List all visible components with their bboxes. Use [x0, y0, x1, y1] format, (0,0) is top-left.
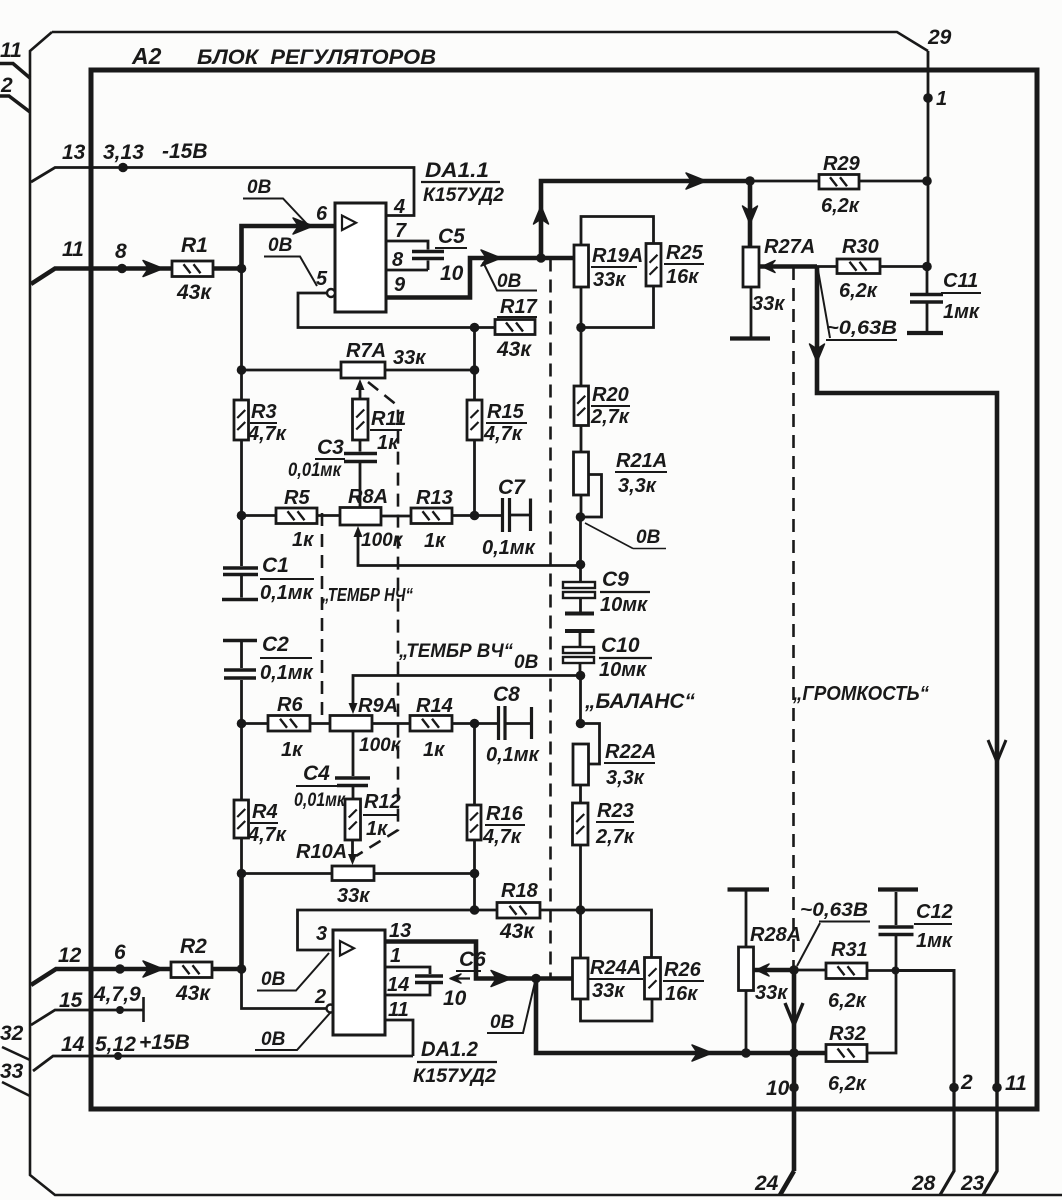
svg-text:C12: C12: [916, 901, 953, 923]
svg-text:„ТЕМБР ВЧ“: „ТЕМБР ВЧ“: [398, 640, 513, 662]
wire R30 right to wire 29: [880, 265, 927, 268]
svg-text:16к: 16к: [665, 983, 698, 1005]
wire node A down / left column: [240, 269, 243, 401]
svg-text:9: 9: [394, 274, 406, 296]
pin 14 stub DA1.2: [385, 984, 430, 995]
resistor R12: [345, 799, 361, 840]
svg-text:0В: 0В: [268, 235, 293, 256]
svg-text:6: 6: [114, 941, 126, 964]
svg-text:R22A: R22A: [605, 741, 656, 763]
svg-text:0В: 0В: [636, 527, 661, 548]
capacitor C3: [359, 440, 362, 452]
wire 0V node to C9: [579, 517, 582, 565]
svg-text:1к: 1к: [292, 529, 314, 551]
svg-text:16к: 16к: [666, 266, 699, 288]
junction 0V node: [576, 512, 586, 522]
svg-text:4,7к: 4,7к: [482, 826, 522, 848]
wire R4 to R10A row: [240, 838, 243, 874]
potentiometer R27A (volume, section A): [743, 247, 759, 287]
svg-text:A2: A2: [131, 43, 162, 69]
svg-text:К157УД2: К157УД2: [413, 1065, 496, 1087]
wire output node to R19A wiper: [541, 256, 574, 261]
svg-text:C4: C4: [303, 762, 330, 785]
potentiometer R22A: [573, 744, 589, 785]
svg-text:DA1.2: DA1.2: [421, 1038, 478, 1061]
junction on wire 11: [117, 264, 127, 274]
chassis bar over R28A: [728, 887, 770, 891]
junction row R7A left: [237, 365, 247, 375]
svg-text:0,1мк: 0,1мк: [486, 744, 540, 766]
wire R19A bottom to feedback node: [580, 287, 583, 328]
edge wire 2 (top-left, off-sheet): [0, 96, 30, 112]
junction on -15V wire: [118, 163, 128, 173]
wire volume tap down-right (thick): [817, 267, 997, 1088]
wire to R4: [240, 724, 243, 801]
capacitor C7: [475, 514, 502, 517]
wire R28A bottom to output line: [745, 991, 748, 1054]
junction C9 node: [576, 560, 586, 570]
bracket to R26 top: [581, 910, 652, 958]
svg-text:1к: 1к: [377, 432, 399, 454]
wire R6 to R9A: [310, 722, 330, 725]
wire node A up to pin 6 DA1.1 (thick): [242, 226, 336, 269]
capacitor C6 (pins 1-14): [415, 974, 443, 977]
resistor R13: [411, 508, 452, 524]
svg-text:R17: R17: [500, 296, 538, 318]
op-amp DA1.1 triangle mark: [342, 216, 356, 231]
resistor R2: [171, 962, 212, 978]
junction R18/R23 node: [576, 905, 586, 915]
wire 14 / +15V rail to DA1.2 pin 11: [33, 1056, 413, 1071]
capacitor C4: [352, 731, 355, 776]
svg-text:„БАЛАНС“: „БАЛАНС“: [584, 690, 695, 713]
wire R27A wiper to R30: [817, 265, 837, 268]
svg-text:C6: C6: [459, 948, 486, 971]
svg-text:0,1мк: 0,1мк: [260, 662, 314, 684]
pin 2 open circle DA1.2: [327, 1005, 335, 1013]
svg-text:1к: 1к: [281, 739, 303, 761]
svg-text:24: 24: [754, 1172, 779, 1195]
svg-text:R18: R18: [501, 880, 539, 902]
svg-text:1к: 1к: [366, 818, 388, 840]
edge wire 33 (off-sheet): [2, 1082, 30, 1096]
junction feedback / R15 column: [470, 323, 480, 333]
wiper wire R27A (thick): [759, 264, 817, 269]
wire chassis to R28A: [745, 891, 748, 947]
junction R29 feed: [745, 176, 755, 186]
resistor R15: [467, 400, 482, 440]
wire wiper node down to pin 10 (thick): [792, 970, 797, 1171]
resistor R30: [837, 259, 880, 274]
svg-text:1к: 1к: [424, 530, 446, 552]
potentiometer R24A (balance slave): [573, 958, 589, 999]
svg-text:10: 10: [443, 987, 467, 1010]
capacitor C12: [895, 892, 898, 925]
svg-text:2: 2: [960, 1071, 973, 1094]
edge wire 29 vertical: [927, 51, 930, 265]
wire node to pin 2 column: [896, 971, 955, 1088]
svg-text:C5: C5: [438, 225, 465, 248]
wire R1 to node A (input node DA1.1): [213, 266, 242, 271]
pin 7 stub DA1.1: [386, 241, 428, 250]
chassis bar under R27A: [730, 336, 770, 340]
wiper R8A with arrow down-right to C9 node: [354, 526, 363, 537]
resistor R31: [826, 963, 867, 979]
junction R30/C11 node: [922, 262, 932, 272]
svg-text:C7: C7: [498, 476, 526, 499]
svg-text:14: 14: [387, 974, 409, 996]
svg-text:33к: 33к: [755, 982, 788, 1004]
svg-text:3,3к: 3,3к: [618, 475, 657, 497]
dashed link balance R19A-R24A: [549, 259, 552, 980]
svg-text:1мк: 1мк: [943, 301, 980, 323]
dashed link volume R27A-R28A: [792, 267, 795, 968]
junction R7A right: [470, 365, 480, 375]
svg-text:R14: R14: [416, 695, 453, 717]
svg-text:„ГРОМКОСТЬ“: „ГРОМКОСТЬ“: [792, 683, 929, 705]
minus bar C9: [565, 612, 594, 616]
svg-text:+15В: +15В: [139, 1031, 190, 1054]
svg-text:R23: R23: [597, 800, 634, 822]
svg-text:R29: R29: [823, 153, 861, 175]
resistor R23: [573, 803, 589, 845]
wire R22A to R23: [579, 785, 582, 803]
svg-text:3,3к: 3,3к: [606, 767, 645, 789]
svg-text:11: 11: [0, 39, 22, 62]
svg-text:5: 5: [316, 268, 328, 290]
junction R10A row left: [237, 869, 247, 879]
wire R18 right: [540, 909, 581, 912]
svg-text:R13: R13: [416, 487, 453, 509]
svg-text:33к: 33к: [393, 347, 426, 369]
svg-text:~0,63В: ~0,63В: [826, 318, 897, 339]
resistor R29: [819, 175, 859, 190]
svg-text:C9: C9: [602, 568, 629, 591]
wiper R9A with arrow up-right to C10 node: [349, 703, 358, 714]
wire R31 right: [867, 969, 896, 972]
svg-text:R26: R26: [664, 959, 702, 981]
wire C10 node to R22A: [579, 676, 582, 724]
svg-text:6,2к: 6,2к: [821, 195, 860, 217]
capacitor C2 from chassis: [223, 639, 257, 643]
junction node B: [237, 964, 247, 974]
resistor R3: [234, 400, 249, 440]
svg-text:0В: 0В: [261, 969, 286, 990]
wire 12 input (thick) to R2: [31, 969, 171, 985]
wire R9A to R14: [372, 722, 410, 725]
svg-text:13: 13: [62, 141, 86, 164]
junction on wire 15: [116, 1006, 124, 1014]
wire R10A right to R16 column: [374, 872, 475, 875]
potentiometer R19A (balance, section A): [574, 245, 589, 287]
svg-text:8: 8: [115, 240, 127, 263]
wire feedback node to R25 bottom: [581, 286, 654, 328]
capacitor C5 (pins 7-8): [412, 250, 444, 253]
junction on wire 12: [115, 964, 125, 974]
wire R29 left: [750, 180, 819, 183]
edge wire 32 (off-sheet): [2, 1047, 30, 1060]
svg-text:R9A: R9A: [358, 695, 398, 717]
svg-text:0,01мк: 0,01мк: [294, 790, 346, 811]
svg-text:C8: C8: [493, 683, 520, 706]
resistor R25: [646, 244, 661, 287]
junction R22A wiper node: [576, 719, 586, 729]
svg-text:R2: R2: [180, 935, 207, 958]
wire R21A to 0V node: [580, 495, 583, 517]
svg-text:10: 10: [440, 262, 464, 285]
svg-text:7: 7: [395, 220, 407, 242]
op-amp DA1.2 triangle mark: [340, 941, 354, 956]
svg-text:8: 8: [392, 249, 404, 271]
svg-text:10мк: 10мк: [600, 594, 648, 616]
junction output node: [536, 253, 546, 263]
svg-text:0В: 0В: [261, 1029, 286, 1050]
svg-text:2: 2: [0, 74, 13, 97]
junction on wire 14: [114, 1052, 122, 1060]
svg-text:C3: C3: [317, 436, 344, 459]
terminal bar C7: [529, 499, 532, 532]
wire R20 to R21A: [580, 426, 583, 453]
potentiometer R9A (treble): [330, 716, 372, 732]
junction 2: [949, 1083, 959, 1093]
resistor R26: [645, 958, 661, 1000]
svg-text:0В: 0В: [490, 1012, 515, 1033]
wire pin23 column kink: [983, 1088, 997, 1196]
svg-text:R27A: R27A: [764, 236, 815, 258]
svg-text:4,7,9: 4,7,9: [93, 983, 141, 1006]
svg-text:0В: 0В: [514, 652, 539, 673]
svg-text:6,2к: 6,2к: [828, 1073, 867, 1095]
wiper wire R28A (thick): [754, 968, 795, 973]
svg-text:-15В: -15В: [162, 140, 208, 163]
svg-text:R16: R16: [486, 803, 524, 825]
potentiometer R28A (volume slave): [739, 947, 754, 991]
svg-text:43к: 43к: [496, 338, 532, 361]
wire R2 node to pin 2 DA1.2: [242, 969, 327, 1009]
bracket R19A/R25 tops: [581, 217, 654, 246]
svg-text:15: 15: [59, 989, 83, 1012]
svg-text:~0,63В: ~0,63В: [800, 900, 868, 921]
wire wiper node to R31: [794, 969, 826, 972]
svg-text:0В: 0В: [247, 177, 272, 198]
svg-text:14: 14: [61, 1033, 85, 1056]
svg-text:C11: C11: [943, 270, 978, 292]
svg-text:0,01мк: 0,01мк: [288, 460, 342, 481]
wire to R6: [242, 722, 269, 725]
resistor R32: [826, 1045, 867, 1062]
wire R3 to R5 row: [240, 440, 243, 516]
junction 1 on wire 29: [923, 93, 933, 103]
chassis bar over C12: [878, 887, 918, 891]
svg-text:2,7к: 2,7к: [590, 406, 630, 428]
wire to R10A left: [242, 872, 333, 875]
svg-text:БЛОК РЕГУЛЯТОРОВ: БЛОК РЕГУЛЯТОРОВ: [197, 45, 436, 69]
junction R5 row left: [237, 511, 247, 521]
junction R28A bottom: [741, 1048, 751, 1058]
junction DA1.2 output node: [531, 974, 541, 984]
junction node A: [237, 264, 247, 274]
svg-text:R5: R5: [284, 487, 310, 509]
svg-text:2,7к: 2,7к: [595, 826, 635, 848]
svg-text:6,2к: 6,2к: [839, 280, 878, 302]
svg-text:11: 11: [62, 238, 84, 261]
svg-text:R12: R12: [364, 791, 401, 813]
wire 15 (pins 4,7,9) stub: [31, 1010, 143, 1025]
wire to R5: [242, 514, 277, 517]
junction R6 row left: [237, 719, 247, 729]
chassis bar under C11: [907, 331, 943, 335]
wire DA1.2 pin 13 output (thick): [385, 942, 573, 979]
svg-text:4,7к: 4,7к: [247, 423, 287, 445]
svg-text:4,7к: 4,7к: [247, 824, 287, 846]
pin 3 wire DA1.2 to R18 node: [298, 910, 475, 950]
svg-text:1: 1: [936, 88, 947, 110]
wire R29 right to wire 29: [859, 180, 927, 183]
wire to R7A: [242, 369, 342, 372]
svg-text:R6: R6: [277, 694, 303, 716]
pin 11 stub DA1.2: [385, 1020, 413, 1056]
svg-text:43к: 43к: [499, 920, 535, 943]
svg-text:13: 13: [389, 920, 411, 942]
svg-text:4: 4: [393, 196, 405, 218]
wire R17 junction down: [473, 328, 476, 401]
svg-text:32: 32: [0, 1022, 24, 1045]
svg-text:11: 11: [388, 999, 409, 1021]
resistor R4: [234, 800, 249, 838]
terminal bar C8: [530, 707, 533, 739]
svg-text:R24A: R24A: [590, 957, 641, 979]
junction on output line crossing: [789, 1048, 799, 1058]
resistor R20: [574, 386, 589, 426]
wire R5 to R8A: [317, 514, 340, 517]
svg-text:4,7к: 4,7к: [483, 423, 523, 445]
wire R27A top feed (thick): [748, 181, 753, 247]
svg-text:43к: 43к: [175, 982, 211, 1005]
edge wire 11 (top-left, off-sheet): [0, 64, 30, 79]
svg-text:1мк: 1мк: [916, 930, 953, 952]
wiper R7A with arrow: [356, 379, 365, 390]
svg-text:R3: R3: [251, 401, 277, 423]
pin 1 stub DA1.2: [385, 967, 430, 974]
wire R2 to node B: [212, 967, 242, 972]
resistor R11: [353, 399, 369, 440]
svg-text:К157УД2: К157УД2: [423, 184, 504, 206]
capacitor C8: [475, 722, 498, 725]
junction R31/C12/R32 node: [892, 967, 900, 975]
op-amp DA1.2 body: [333, 930, 385, 1035]
svg-text:2: 2: [314, 986, 326, 1008]
svg-text:33к: 33к: [337, 885, 370, 907]
feedback wire pin5 to R17 row: [298, 293, 495, 328]
resistor R5: [276, 508, 317, 524]
svg-text:11: 11: [1005, 1072, 1027, 1095]
wire R18 left: [475, 909, 498, 912]
wire R18 node to R24A: [579, 910, 582, 958]
wiper bracket R21A: [581, 475, 602, 518]
chassis bar under C1: [222, 598, 258, 602]
pin 8 stub DA1.1: [386, 261, 428, 271]
capacitor C9 (electrolytic): [579, 565, 582, 583]
wire R14 to C8 node: [452, 722, 475, 725]
resistor R16: [467, 805, 481, 840]
potentiometer R10A (bass slave): [332, 866, 374, 881]
svg-text:1к: 1к: [423, 739, 445, 761]
capacitor C11: [926, 267, 929, 294]
capacitor C10 (electrolytic): [565, 629, 595, 633]
svg-text:R19A: R19A: [592, 245, 643, 267]
svg-text:C10: C10: [601, 634, 640, 657]
resistor R17: [495, 320, 535, 335]
resistor R14: [410, 716, 452, 732]
svg-text:C1: C1: [262, 554, 289, 577]
svg-text:23: 23: [960, 1172, 985, 1195]
svg-text:10мк: 10мк: [599, 659, 647, 681]
svg-text:3: 3: [316, 923, 327, 945]
wire output node up and right (thick): [541, 181, 750, 258]
svg-text:3,13: 3,13: [103, 141, 144, 164]
wire R8A to R13: [381, 515, 411, 518]
wire 13 / -15V rail to DA1.1 pin 4: [31, 168, 414, 216]
resistor R1: [172, 261, 213, 277]
svg-text:C2: C2: [262, 633, 289, 656]
svg-text:R31: R31: [831, 939, 868, 961]
potentiometer R21A: [574, 452, 589, 495]
pin 5 open circle (inverting input DA1.1): [327, 289, 335, 297]
svg-text:29: 29: [927, 26, 952, 49]
potentiometer R8A (bass): [340, 508, 381, 526]
dashed link R7A-R10A: [356, 382, 398, 856]
wire R32 right up to node: [867, 971, 896, 1053]
svg-text:28: 28: [911, 1172, 936, 1195]
svg-text:43к: 43к: [176, 281, 212, 304]
bracket R24A/R26 bottoms: [581, 999, 653, 1021]
junction R13 row right: [470, 511, 480, 521]
wire R19A node to R20: [580, 328, 583, 387]
svg-text:R11: R11: [371, 408, 406, 430]
wire R23 to R18 node: [579, 845, 582, 910]
svg-text:5,12: 5,12: [95, 1033, 136, 1056]
wiper R10A with arrow: [351, 840, 354, 854]
svg-text:12: 12: [58, 944, 82, 967]
op-amp DA1.1 body: [335, 203, 386, 312]
svg-text:R8A: R8A: [348, 486, 388, 508]
svg-text:R30: R30: [842, 236, 879, 258]
svg-text:R1: R1: [181, 234, 208, 257]
svg-text:33к: 33к: [593, 269, 626, 291]
wire output node down and right (thick): [536, 979, 826, 1054]
wiper bracket R22A: [581, 724, 600, 765]
svg-text:0,1мк: 0,1мк: [482, 537, 536, 559]
inner block frame A2 (thick rectangle): [91, 70, 1037, 1109]
svg-text:R21A: R21A: [616, 450, 667, 472]
junction 10: [789, 1083, 799, 1093]
svg-text:10: 10: [766, 1077, 790, 1100]
svg-text:33к: 33к: [752, 293, 785, 315]
svg-text:0,1мк: 0,1мк: [260, 582, 314, 604]
wire 11 input (thick) to R1: [31, 269, 172, 285]
svg-text:33к: 33к: [592, 980, 625, 1002]
wire R16 to R18 row: [473, 840, 476, 910]
svg-text:1: 1: [390, 945, 401, 967]
svg-text:6: 6: [316, 203, 328, 225]
junction 11: [992, 1083, 1002, 1093]
svg-text:R32: R32: [829, 1023, 866, 1045]
svg-text:R25: R25: [666, 242, 704, 264]
junction R10A right: [470, 869, 480, 879]
junction volume wiper node: [789, 965, 799, 975]
svg-text:0В: 0В: [497, 271, 522, 292]
junction C8 node: [470, 719, 480, 729]
